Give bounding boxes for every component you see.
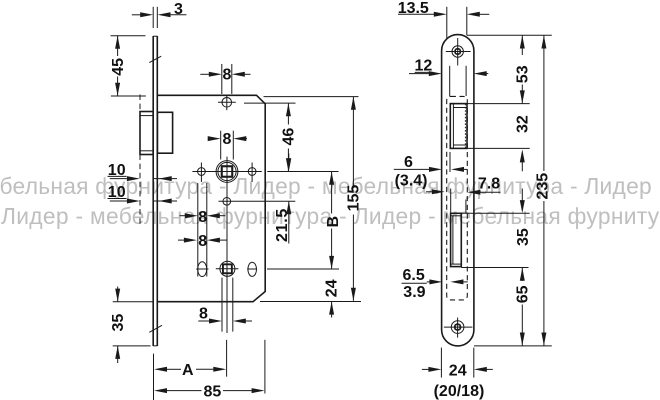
dimension 85 [154, 388, 167, 393]
svg-text:3: 3 [174, 1, 183, 18]
svg-text:6.5: 6.5 [403, 267, 425, 284]
extension line top right (155 top) [264, 96, 359, 98]
svg-text:8: 8 [223, 67, 232, 84]
extension line faceplate bottom (35 bottom) [113, 345, 151, 347]
svg-text:7.8: 7.8 [478, 176, 500, 193]
dimension 35 [117, 287, 119, 302]
svg-text:B: B [325, 216, 342, 228]
svg-text:32: 32 [514, 115, 531, 133]
bottom screw [451, 321, 464, 334]
dimension 8 (oval hole, lower) [178, 239, 184, 241]
top screw [452, 46, 463, 57]
extension lines oval hole [197, 183, 199, 277]
faceplate (side view, vertical plate) [152, 36, 154, 346]
hub centerline horizontal [192, 171, 261, 173]
spindle hub inner circle [218, 162, 236, 180]
svg-text:85: 85 [204, 384, 222, 400]
dimension 7.8 [450, 189, 452, 214]
svg-text:(3.4): (3.4) [395, 172, 428, 189]
dimension 65 [520, 268, 525, 281]
break tick top on faceplate [149, 56, 161, 62]
svg-text:8: 8 [199, 305, 208, 322]
svg-text:бельная фурнитура - Лидер - ме: бельная фурнитура - Лидер - мебельная фу… [0, 173, 652, 199]
extension line bottom left (35 top) [113, 301, 153, 303]
dimension 45 [111, 35, 146, 37]
extension line 46 top [244, 102, 296, 104]
svg-text:45: 45 [110, 58, 127, 76]
dimension 24 (plate width) [440, 348, 442, 378]
dashed reference line at latch face [139, 95, 141, 112]
dimension 3 (faceplate thickness) [152, 7, 154, 28]
svg-text:8: 8 [198, 209, 207, 226]
dimension 53 [520, 36, 525, 49]
dimension B [329, 172, 334, 185]
svg-text:46: 46 [281, 128, 298, 146]
spindle hub outer circle [216, 161, 238, 183]
spindle square [222, 166, 233, 177]
svg-text:35: 35 [110, 314, 127, 332]
svg-text:24: 24 [324, 279, 341, 297]
dimension 8 (spindle square) [220, 131, 222, 160]
extension line deadbolt bottom right [461, 267, 528, 269]
latch cutout [450, 104, 467, 149]
svg-text:8: 8 [198, 233, 207, 250]
deadbolt cutout [451, 213, 462, 266]
extension line deadbolt top right [461, 212, 529, 214]
extension line plate top right [467, 34, 552, 36]
extension line faceplate lower (A/85 left) [153, 354, 155, 400]
right hole circle [248, 168, 256, 176]
svg-text:35: 35 [515, 228, 532, 246]
svg-text:235: 235 [535, 173, 552, 200]
extension line right edge lower (85 right) [264, 340, 266, 394]
svg-text:3.9: 3.9 [403, 284, 425, 301]
svg-text:A: A [182, 362, 194, 379]
dimension 46 [287, 103, 289, 124]
cylinder square [223, 264, 232, 273]
latch bolt body behind plate [157, 112, 172, 153]
extension line plate bottom right [474, 345, 552, 347]
dimension 155 [352, 97, 354, 188]
hub centerline vertical [226, 157, 228, 333]
right oval hole [248, 262, 257, 276]
extension line latch top right [450, 103, 529, 105]
extension line lock top left (45 bottom ref) [111, 95, 146, 97]
left hole circle [198, 168, 206, 176]
top screw hole [222, 98, 232, 108]
extension line bottom right (155/24 bottom) [260, 301, 361, 303]
dimension 235 [541, 36, 546, 49]
unlabeled arrow pair between latch bottom and deadbolt top [520, 149, 525, 162]
svg-text:21.5: 21.5 [274, 208, 291, 242]
dimension 21.5 [267, 171, 338, 173]
dimension A [154, 367, 167, 372]
svg-text:8: 8 [223, 131, 232, 148]
svg-text:53: 53 [514, 65, 531, 83]
svg-text:6: 6 [404, 154, 413, 171]
latch bolt head (protruding left) [140, 112, 153, 155]
extension line latch bottom right [467, 147, 530, 149]
cylinder hub circle [220, 261, 235, 276]
lock case outline [157, 95, 265, 301]
dimension 8 (oval hole, upper) [180, 215, 187, 217]
dimension 8 (top screw hole) [221, 64, 223, 94]
extension line cylinder center right [267, 268, 339, 270]
striking plate outline (rounded ends) [442, 35, 474, 346]
svg-text:155: 155 [345, 185, 362, 212]
svg-text:65: 65 [515, 285, 532, 303]
break tick bottom on faceplate [149, 325, 162, 332]
extension lines cylinder square [221, 278, 223, 332]
svg-text:24: 24 [449, 362, 467, 379]
lower hole circle [223, 197, 231, 205]
left oval hole [198, 262, 207, 277]
dashed lock case behind plate [447, 96, 468, 300]
svg-text:(20/18): (20/18) [434, 383, 485, 400]
